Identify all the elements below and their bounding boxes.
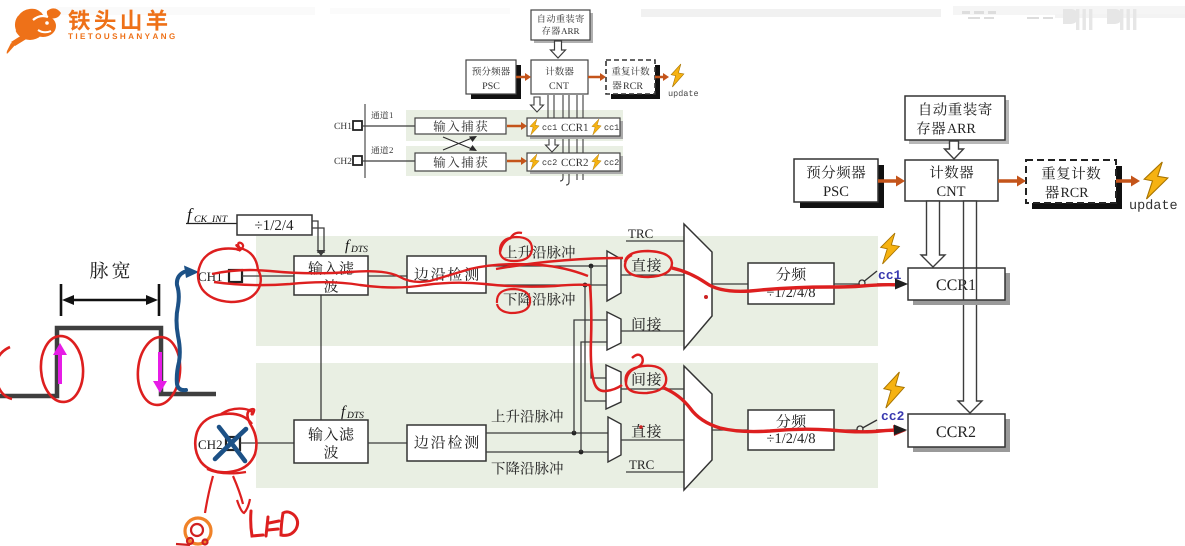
wire big mux ch1 to divider [712,283,748,285]
green band channel1 row (small diagram) [406,110,623,141]
label 直接 (ch2) [632,424,661,438]
label 通道2 (small) [371,146,393,154]
wire filter1 to edge1 [368,275,407,277]
mux direct ch2 (small trapezoid) [608,417,621,462]
switch contact ch1 [859,280,865,286]
register box CCR1 (small) [527,118,623,139]
magenta rising-edge arrow [58,352,62,384]
switch contact ch2 [857,426,863,432]
red dot near 直接 ch2 [639,425,643,429]
red line branch to 直接 circle [496,258,623,269]
box ARR (small) 自动重装寄存器 [531,10,593,43]
orange arrow RCR to update (big) [1116,176,1140,187]
port CH1 (small) [334,121,362,130]
wire switch to CCR1 with arrow [877,279,908,290]
wire mux-indirect ch2 to big mux [621,388,684,390]
box CNT (small) 计数器 [531,60,588,94]
orange arrow capture2 to CCR2 (small) [507,157,527,165]
label TRC (ch2) [629,460,653,469]
box PSC (small) 预分频器 [466,60,521,99]
red pointer line to icon [205,476,213,513]
blue arrow waveform to CH1 [177,272,187,390]
box input capture 1 输入捕获 (small) [415,118,506,134]
red circle around falling edge [135,335,183,406]
red annotation line ch1 lower strand [214,282,590,288]
wire falling ch2 [486,451,608,453]
wire CH1 to capture box (small) [362,125,415,127]
label fCK_INT [186,208,237,224]
wire big mux ch2 to divider [712,429,748,431]
red ellipse around 下降 [497,289,530,313]
boundary line (small) [364,104,366,178]
cross wire lower-indirect to ch1 rising [591,266,606,378]
logo goat icon [7,8,61,54]
hollow arrow CNT to CCR1 (big) [921,201,945,267]
wire mux-direct ch2 to big mux [621,439,684,441]
hollow arrow CNT down (small) [531,97,544,112]
lightning cc2 [884,372,904,408]
lightning update (big) [1144,162,1168,199]
wire CH2 to capture box (small) [362,160,415,162]
lightning update (small) [671,64,684,87]
wire TRC ch1 [626,240,684,242]
red circle around rising edge [39,335,86,404]
red ellipse around 上升 [500,237,532,261]
box CNT (big) 计数器 [905,160,998,201]
red dot near big mux ch1 [704,295,708,299]
wire switch to CCR2 with arrow [876,425,907,436]
orange arrow RCR to update (small) [655,73,669,81]
pulse waveform [0,328,216,396]
lightning cc1 [881,233,900,264]
red arrowhead at CCR2 [893,425,906,436]
red tick above 上升 ellipse [510,233,522,239]
box PSC (big) 预分频器 [794,159,884,208]
pulse width measure ticks and arrows [61,284,159,316]
label cc2 [882,411,904,420]
label 间接 (ch1) [633,317,661,331]
orange arrow CNT to RCR (big) [998,176,1026,187]
orange arrow CNT to RCR (small) [588,73,606,81]
register box CCR2 (big) [908,414,1010,452]
box RCR (big, dashed) 重复计数器 [1026,160,1122,209]
wire TRC ch2 [626,471,684,473]
register box CCR1 (big) [908,268,1010,305]
cross arrows between capture boxes (small) [443,137,472,150]
orange arrow PSC to CNT (big) [878,176,905,187]
red line 间接 to divider to CCR2 [664,388,898,432]
label 通道1 (small) [371,111,393,119]
register box CCR2 (small) [527,153,623,174]
green band channel1 (main) [256,236,878,346]
label rising pulse ch1 上升沿脉冲 [504,245,575,258]
hollow arrow CNT to CCR2 (big) [958,201,982,413]
label 脉宽 [90,261,130,279]
mux direct ch1 (small trapezoid) [607,251,621,301]
wire mux-indirect ch1 to big mux [621,330,684,332]
logo subtext TIETOUSHANYANG [68,33,175,39]
handwritten LED [251,511,298,536]
black arrowhead restated over red (CCR1) [895,279,908,289]
red ellipse around 间接 ch2 [626,355,667,393]
label 直接 (ch1) [632,258,661,272]
box divider ch2 分频 ÷1/2/4/8 [748,410,834,450]
red arc at left edge [0,347,12,399]
orange arrow capture1 to CCR1 (small) [507,122,527,130]
hollow arrow CCR1 to CCR2 (small) [546,137,559,152]
red squiggle atop CH2 circle [221,409,252,415]
box input filter 1 输入滤波 [294,256,368,295]
black arrowhead restated over red (CCR2) [894,425,907,435]
bus lines through CCR1 [964,268,977,300]
wire mux-direct ch1 to big mux [621,274,684,276]
red pointer arrow to LED [233,476,243,504]
label TRC (ch1) [628,229,652,238]
box input capture 2 输入捕获 (small) [415,153,506,171]
wire filter2 to edge2 [368,442,407,444]
wire falling ch1 [486,284,607,286]
cross wire upper-indirect to ch2 rising [574,320,607,433]
wire divider ch1 to switch [834,283,859,285]
big mux ch1 [684,224,712,349]
logo text 铁头山羊 [68,9,167,30]
red annotation line ch1 upper strand [212,264,588,282]
box divider ch1 分频 ÷1/2/4/8 [748,263,834,304]
wire divider to filter1 (double vertical) [312,221,324,253]
label fDTS (ch2) [341,405,364,419]
label falling pulse ch1 下降沿脉冲 [504,292,575,305]
red circle around CH1 [198,245,261,302]
label update (big) [1130,199,1177,212]
label update (small) [669,90,698,98]
wire divider ch2 to switch [834,429,857,431]
label rising pulse ch2 上升沿脉冲 [492,409,563,422]
label fDTS (ch1) [345,239,368,253]
label 间接 (ch2) [633,372,661,386]
hollow arrow ARR to CNT (small) [551,41,566,58]
junction dot rising ch1 [589,264,594,269]
junction dot rising ch2 [572,431,577,436]
watermark bilibili [55,6,1185,30]
junction dot falling ch2 [579,450,584,455]
hollow arrow ARR to CNT (big) [945,141,964,159]
box divider ÷1/2/4 [237,215,312,235]
port CH2 (main) [199,437,241,450]
box RCR (small, dashed) 重复计数器 [606,60,660,99]
wire CH1 to filter1 [242,275,294,277]
mux indirect ch2 (small trapezoid) [606,365,621,409]
box input filter 2 输入滤波 [294,420,368,463]
box edge detect 2 边沿检测 [407,425,486,461]
label cc1 [879,270,901,279]
wire CH2 to filter2 [240,442,294,444]
cross wire lower-indirect to ch1 falling [585,285,606,401]
port CH2 (small) [334,156,362,165]
box ARR (big) 自动重装寄存器ARR [905,96,1009,144]
junction dot falling ch1 [583,283,588,288]
mux indirect ch1 (small trapezoid) [607,312,621,350]
blue X over CH2 [215,427,246,461]
magenta falling-edge arrow [158,352,162,384]
label falling pulse ch2 下降沿脉冲 [492,461,563,474]
red circle around CH2 [195,409,256,472]
wire filter1 down to filter2 [320,295,322,420]
bus lines CNT to CCR boxes (small) [548,95,583,185]
cross wire upper-indirect to ch2 falling [581,342,607,452]
wire rising ch2 [486,432,608,434]
port CH1 (main) [199,270,243,282]
big mux ch2 [684,366,712,490]
green band channel2 row (small diagram) [406,146,623,176]
red ellipse around 直接 ch1 [625,251,672,277]
orange arrow PSC to CNT (small) [516,73,531,81]
green band channel2 (main) [256,363,878,488]
red chin stroke under CH2 circle [207,469,246,473]
box edge detect 1 边沿检测 [407,256,486,293]
orange ring icon [185,518,211,544]
red vertical drop line to ch2 [590,285,622,391]
red line 直接 to divider to CCR1 [672,268,899,291]
red doodle inside ring [176,524,208,545]
wire rising ch1 [486,265,607,267]
